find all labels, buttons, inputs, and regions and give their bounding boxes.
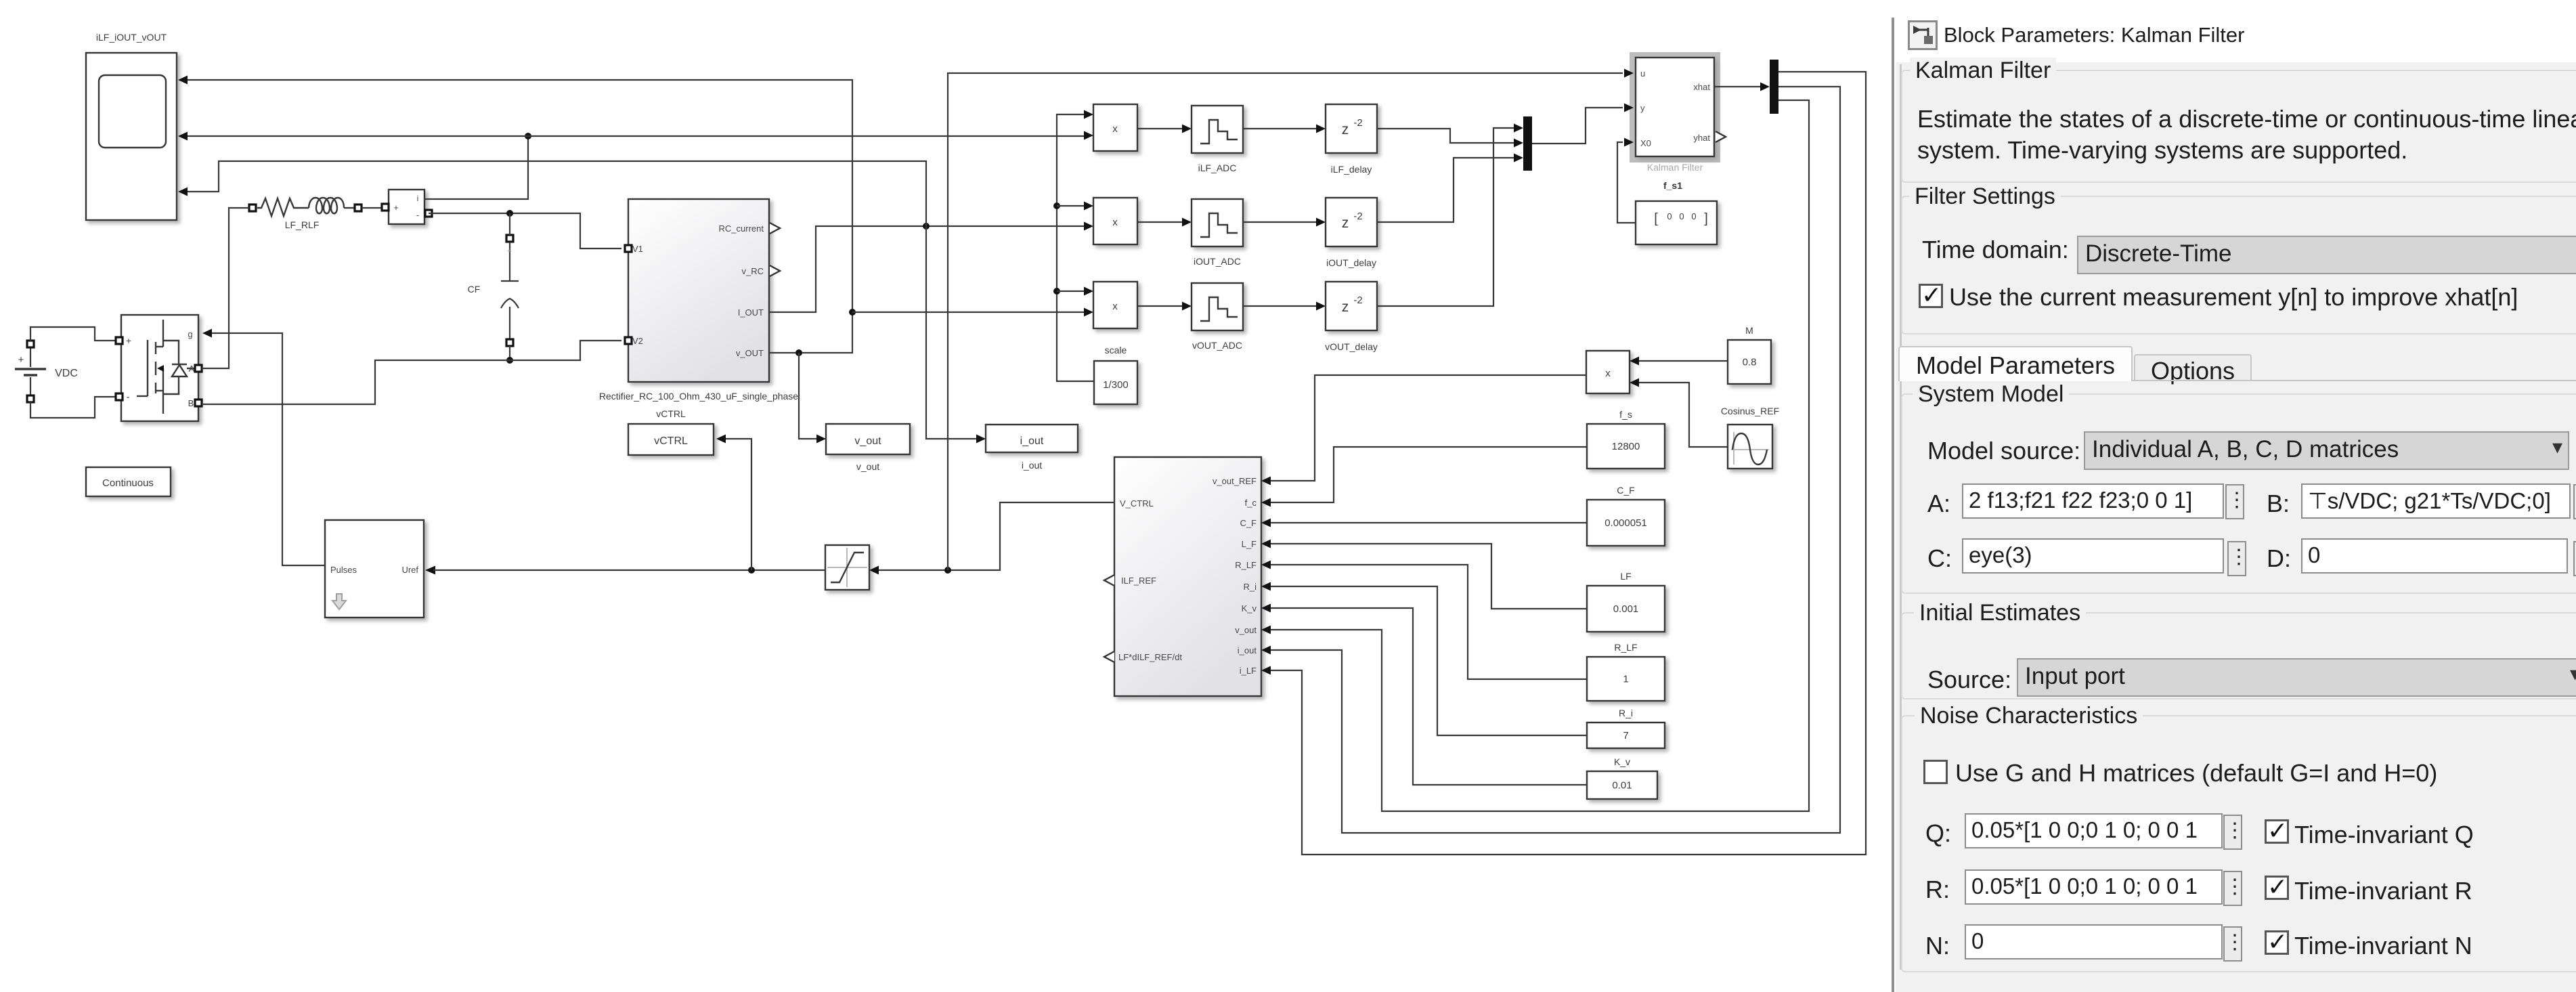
product vOUT input arrows [1084,287,1093,296]
svg-text:v_out: v_out [1235,625,1257,635]
wire iLF to product1 [528,135,1084,137]
zero-order hold iOUT_ADC [1192,199,1243,246]
CF top terminal [506,235,513,242]
controller v_out_REF input arrow [1261,477,1271,486]
mux [1523,116,1532,171]
svg-text:1: 1 [1623,674,1628,685]
controller v_out input arrow [1261,626,1271,634]
svg-text:vCTRL: vCTRL [654,435,688,447]
wire V_CTRL to saturation [879,502,1114,570]
constant K_v [1587,771,1657,799]
svg-text:LF*dILF_REF/dt: LF*dILF_REF/dt [1118,652,1182,662]
svg-text:R_LF: R_LF [1614,642,1637,653]
junction v_OUT row3 [849,309,856,316]
delay block vOUT_delay [1326,282,1377,330]
iOUT_delay input arrow [1316,218,1326,227]
wire CF branch [509,213,510,235]
wire R_LF const to port [1271,565,1587,679]
vOUT_delay input arrow [1316,302,1326,311]
svg-text:RC_current: RC_current [719,223,764,234]
product iLF input arrows [1084,110,1093,119]
mux input arrows [1514,124,1523,133]
controller L_F input arrow [1261,540,1271,548]
wire product to vOUT_ADC [1137,305,1182,307]
wire f_s1 to X0 [1617,142,1636,223]
svg-text:v_out_REF: v_out_REF [1213,476,1257,486]
svg-text:R_i: R_i [1243,582,1257,592]
svg-text:-2: -2 [1353,211,1362,222]
svg-text:i_out: i_out [1238,645,1257,655]
svg-text:iLF_delay: iLF_delay [1331,164,1372,175]
wire LF_RLF to current sensor [362,207,382,209]
mosfet g input arrow [202,329,212,338]
demux [1770,60,1778,114]
LF_RLF right terminal [355,204,362,211]
VDC bottom terminal [27,395,34,402]
rectifier v_RC chevron [770,265,780,276]
svg-text:Pulses: Pulses [330,565,357,575]
svg-text:LF_RLF: LF_RLF [285,219,320,230]
svg-text:Rectifier_RC_100_Ohm_430_uF_si: Rectifier_RC_100_Ohm_430_uF_single_phase [599,391,798,402]
junction I_OUT [923,223,930,230]
svg-text:g: g [188,329,192,339]
constant C_F [1587,500,1665,546]
iLF_delay input arrow [1316,125,1326,133]
svg-text:iLF_iOUT_vOUT: iLF_iOUT_vOUT [96,32,167,43]
svg-text:f_s1: f_s1 [1663,180,1682,191]
svg-text:z: z [1342,215,1349,231]
goto i_out input arrow [976,435,986,444]
svg-text:7: 7 [1623,730,1628,741]
svg-text:x: x [1112,217,1118,228]
svg-text:M: M [1745,325,1753,336]
svg-text:Uref: Uref [401,565,418,575]
kalman input arrows [1624,69,1634,78]
wire scale to product3 top [1057,290,1084,292]
svg-text:0.01: 0.01 [1612,780,1632,792]
svg-text:+: + [393,202,399,213]
pulses Uref input arrow [425,566,435,575]
scope input port 1 [178,76,188,85]
product iOUT input arrows [1084,202,1093,211]
wire R_i const to port [1271,586,1587,735]
svg-text:+: + [507,247,511,255]
product block vOUT [1093,282,1137,328]
wire v_OUT to v_out goto [799,353,816,439]
svg-text:v_out: v_out [856,461,879,472]
wire product to iLF_ADC [1137,128,1182,129]
constant R_LF [1587,657,1665,701]
mosfet - port [116,393,123,400]
wire u to kalman [948,73,1623,570]
svg-text:vOUT_delay: vOUT_delay [1325,341,1378,352]
svg-text:A: A [189,364,195,374]
wire mux to kalman y [1532,108,1623,144]
wire VDC- to bridge - [30,397,116,418]
current sensor out port [425,210,432,217]
svg-text:f_s: f_s [1619,409,1632,420]
product block iOUT [1093,198,1137,244]
controller C_F input arrow [1261,519,1271,527]
wire I_OUT net [769,226,1084,312]
junction scale r3 [1053,288,1060,295]
wire pulses to gate g [212,333,325,565]
svg-text:vCTRL: vCTRL [656,408,686,419]
current sensor input port [382,204,389,211]
svg-text:f_c: f_c [1245,498,1257,508]
controller R_i input arrow [1261,582,1271,591]
svg-text:C_F: C_F [1240,518,1257,528]
svg-text:-: - [127,391,130,403]
svg-text:0: 0 [1691,211,1696,221]
CF bottom terminal [506,339,513,346]
svg-text:I_OUT: I_OUT [738,307,764,318]
scale block 1/300 [1094,361,1137,404]
wire iLF to scope in2 [188,135,528,137]
capacitor CF [509,242,510,281]
rectifier RC_current chevron [770,223,780,234]
wire xhat2 to i_out [1271,87,1840,833]
delay block iLF_delay [1326,104,1377,153]
wire v_OUT to product3 [852,311,1084,313]
svg-text:iOUT_delay: iOUT_delay [1326,257,1376,268]
current sensor block [389,190,424,224]
goto v_out input arrow [816,435,826,444]
zero-order hold iLF_ADC [1192,106,1243,153]
svg-text:VDC: VDC [55,368,78,379]
junction vCTRL tap [748,567,755,574]
zero-order hold vOUT_ADC [1192,283,1243,330]
mosfet icon [162,320,164,347]
kalman selection halo [1630,52,1720,163]
svg-text:1/300: 1/300 [1103,379,1129,391]
svg-text:[: [ [1654,211,1658,226]
goto vCTRL input arrow [716,435,726,444]
scope block iLF_iOUT_vOUT [86,53,177,220]
svg-text:i_LF: i_LF [1240,666,1257,676]
goto i_out block [986,425,1078,452]
rectifier subsystem block [628,199,769,382]
svg-text:0.001: 0.001 [1613,603,1639,615]
svg-text:-: - [416,210,419,220]
wire xhat1 to i_LF [1271,72,1866,855]
kalman yhat chevron [1716,131,1726,142]
LF_RLF resistor [257,198,296,216]
wire I_OUT to scope in3 [188,161,926,226]
svg-text:+: + [18,354,24,366]
svg-text:X0: X0 [1640,138,1651,148]
wire VDC+ to bridge + [30,327,116,341]
pulses block [325,520,424,618]
saturation input arrow [869,566,879,575]
svg-text:z: z [1342,122,1349,137]
svg-text:ILF_REF: ILF_REF [1121,576,1156,586]
controller subsystem block [1114,457,1261,696]
junction scale r2 [1053,202,1060,209]
constant LF [1587,586,1665,632]
demux input arrow [1760,83,1770,91]
scope input port 3 [178,188,188,196]
svg-text:R_LF: R_LF [1235,560,1257,570]
wire mult to v_out_REF [1271,375,1586,481]
svg-text:v_out: v_out [854,435,881,447]
wire xhat to demux [1714,86,1760,87]
goto vCTRL block [628,424,714,455]
svg-text:K_v: K_v [1614,756,1630,767]
product block f_s mult [1586,351,1630,393]
svg-text:V2: V2 [632,336,643,346]
svg-text:Continuous: Continuous [102,477,154,489]
controller K_v input arrow [1261,604,1271,613]
svg-text:C_F: C_F [1617,485,1634,496]
svg-text:CF: CF [468,284,481,295]
wire product to iOUT_ADC [1137,221,1182,223]
dc source VDC battery [30,347,31,367]
pulses down-arrow icon [332,594,346,609]
svg-text:B: B [188,398,194,408]
delay block iOUT_delay [1326,198,1377,246]
svg-text:iOUT_ADC: iOUT_ADC [1194,256,1241,267]
svg-text:vOUT_ADC: vOUT_ADC [1192,340,1242,351]
goto v_out block [826,424,910,454]
wire LF const to port [1271,544,1587,609]
svg-text:x: x [1605,368,1611,379]
VDC top terminal [27,341,34,347]
vOUT_ADC input arrow [1182,302,1192,311]
rectifier V1 port [625,245,632,252]
controller R_LF input arrow [1261,561,1271,569]
wire sensor- to V1 [429,213,621,249]
wire iOUT_delay to mux [1377,158,1514,222]
svg-text:i_out: i_out [1022,460,1042,471]
junction iLF [525,133,531,139]
mosfet + port [116,337,123,344]
iLF_ADC input arrow [1182,125,1192,133]
svg-text:0: 0 [1667,211,1672,221]
wire LF_RLF to mosfet A [202,208,249,368]
svg-text:0.8: 0.8 [1743,357,1757,368]
LF_RLF inductor [296,207,309,209]
svg-text:yhat: yhat [1693,133,1710,143]
svg-text:y: y [1640,103,1645,113]
wire tap to vCTRL goto [723,439,751,570]
svg-text:12800: 12800 [1612,441,1640,452]
wire f_s to f_c [1271,447,1587,502]
wire vOUT_delay to mux [1377,128,1514,306]
wire CF bottom to bus [509,346,510,360]
svg-text:iLF_ADC: iLF_ADC [1198,163,1237,173]
mosfet B port [195,400,202,406]
product block iLF [1093,104,1137,151]
svg-text:scale: scale [1105,345,1127,355]
powergui block Continuous [86,467,171,496]
svg-text:0.000051: 0.000051 [1604,517,1647,529]
wire cosinus to mult [1639,383,1728,447]
iOUT_ADC input arrow [1182,218,1192,227]
svg-text:+: + [126,335,131,346]
constant f_s1 block [1636,201,1717,244]
mosfet A port [195,365,202,372]
junction u tap [944,567,951,574]
svg-text:v_OUT: v_OUT [736,348,764,358]
wire K_v const to port [1271,608,1587,785]
f_s mult input arrows [1630,357,1639,366]
svg-text:]: ] [1704,211,1708,226]
constant M [1728,340,1771,384]
junction CF bottom [506,357,513,364]
controller ILF_REF chevron [1104,575,1114,586]
wire iOUT_ADC to delay [1243,221,1316,223]
wire bus to V2 [510,341,621,360]
rectifier V2 port [625,337,632,344]
junction CF top [506,210,513,217]
svg-text:-2: -2 [1353,117,1362,129]
wire xhat3 to v_out [1271,100,1809,811]
wire v_OUT net [188,80,852,353]
svg-text:V_CTRL: V_CTRL [1120,498,1154,509]
svg-text:Kalman Filter: Kalman Filter [1647,162,1703,173]
wire vOUT_ADC to delay [1243,305,1316,307]
svg-text:u: u [1640,68,1645,79]
wire iLF_delay to mux [1377,129,1514,143]
constant f_s [1587,424,1665,469]
controller i_out input arrow [1261,646,1271,655]
svg-text:0: 0 [1679,211,1684,221]
wire iLF_ADC to delay [1243,128,1316,129]
controller dILF chevron [1104,651,1114,662]
wire bus to mosfet B [202,360,510,404]
controller i_LF input arrow [1261,666,1271,675]
wire scale to products [1057,114,1094,381]
wire scale to product2 [1057,205,1084,207]
svg-text:Cosinus_REF: Cosinus_REF [1721,406,1779,416]
signal generator Cosinus_REF [1728,425,1772,469]
wire I_OUT to i_out goto [926,226,976,439]
wire saturation to Uref [433,569,825,571]
saturation block [825,545,869,590]
constant R_i [1587,723,1665,748]
kalman filter block [1636,58,1714,156]
svg-text:x: x [1112,301,1118,312]
svg-text:V1: V1 [632,244,643,254]
wire M to mult [1639,360,1728,362]
LF_RLF left terminal [249,204,256,211]
svg-text:v_RC: v_RC [741,266,764,276]
svg-text:i_out: i_out [1020,435,1044,447]
wire sensor i to junction [424,136,528,199]
svg-text:-2: -2 [1353,295,1362,306]
wire C_F const to port [1271,522,1587,523]
svg-text:K_v: K_v [1242,603,1257,613]
svg-text:L_F: L_F [1242,539,1257,549]
mosfet block [121,315,198,421]
svg-text:z: z [1342,299,1349,315]
svg-text:R_i: R_i [1619,708,1633,718]
svg-text:LF: LF [1620,571,1631,582]
svg-text:x: x [1112,123,1118,135]
scope input port 2 [178,132,188,141]
controller f_c input arrow [1261,498,1271,507]
junction v_out goto tap [795,349,802,356]
svg-text:i: i [417,194,419,203]
svg-text:xhat: xhat [1693,82,1710,92]
